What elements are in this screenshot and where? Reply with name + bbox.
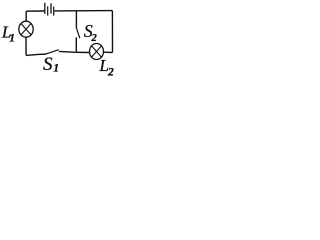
wire right side (111, 11, 113, 53)
wire top left (corner to battery) (26, 10, 44, 12)
svg-text:2: 2 (91, 33, 98, 44)
svg-text:1: 1 (53, 61, 59, 75)
wire left upper (corner to lamp L1) (25, 11, 27, 21)
svg-text:2: 2 (107, 67, 114, 76)
wire top right (battery to right corner) (54, 10, 112, 12)
lamp L1 circle (19, 21, 33, 37)
svg-text:1: 1 (9, 33, 15, 45)
wire bottom middle (switch S1 to node A) (59, 50, 77, 53)
svg-text:S: S (43, 54, 53, 75)
battery GB1 plate long left (44, 3, 46, 14)
lamp L2 cross (92, 46, 102, 57)
battery GB1 plate short right (53, 7, 55, 16)
battery GB1 plate long right (50, 3, 52, 13)
wire lamp L2 to bottom right corner (103, 51, 112, 53)
lamp L1 cross (21, 24, 31, 35)
lamp L2 circle (90, 44, 104, 60)
wire bottom left (corner to switch S1) (26, 54, 46, 55)
wire left lower (lamp L1 to bottom corner) (25, 37, 27, 55)
node A junction to lamp L2 (76, 51, 89, 53)
switch S2 blade (76, 28, 79, 38)
battery GB1 plate short left (47, 6, 49, 15)
switch S1 blade (45, 50, 59, 55)
wire middle branch upper (top wire to switch S2) (75, 11, 77, 28)
wire middle branch lower (switch S2 to node A) (75, 37, 77, 52)
